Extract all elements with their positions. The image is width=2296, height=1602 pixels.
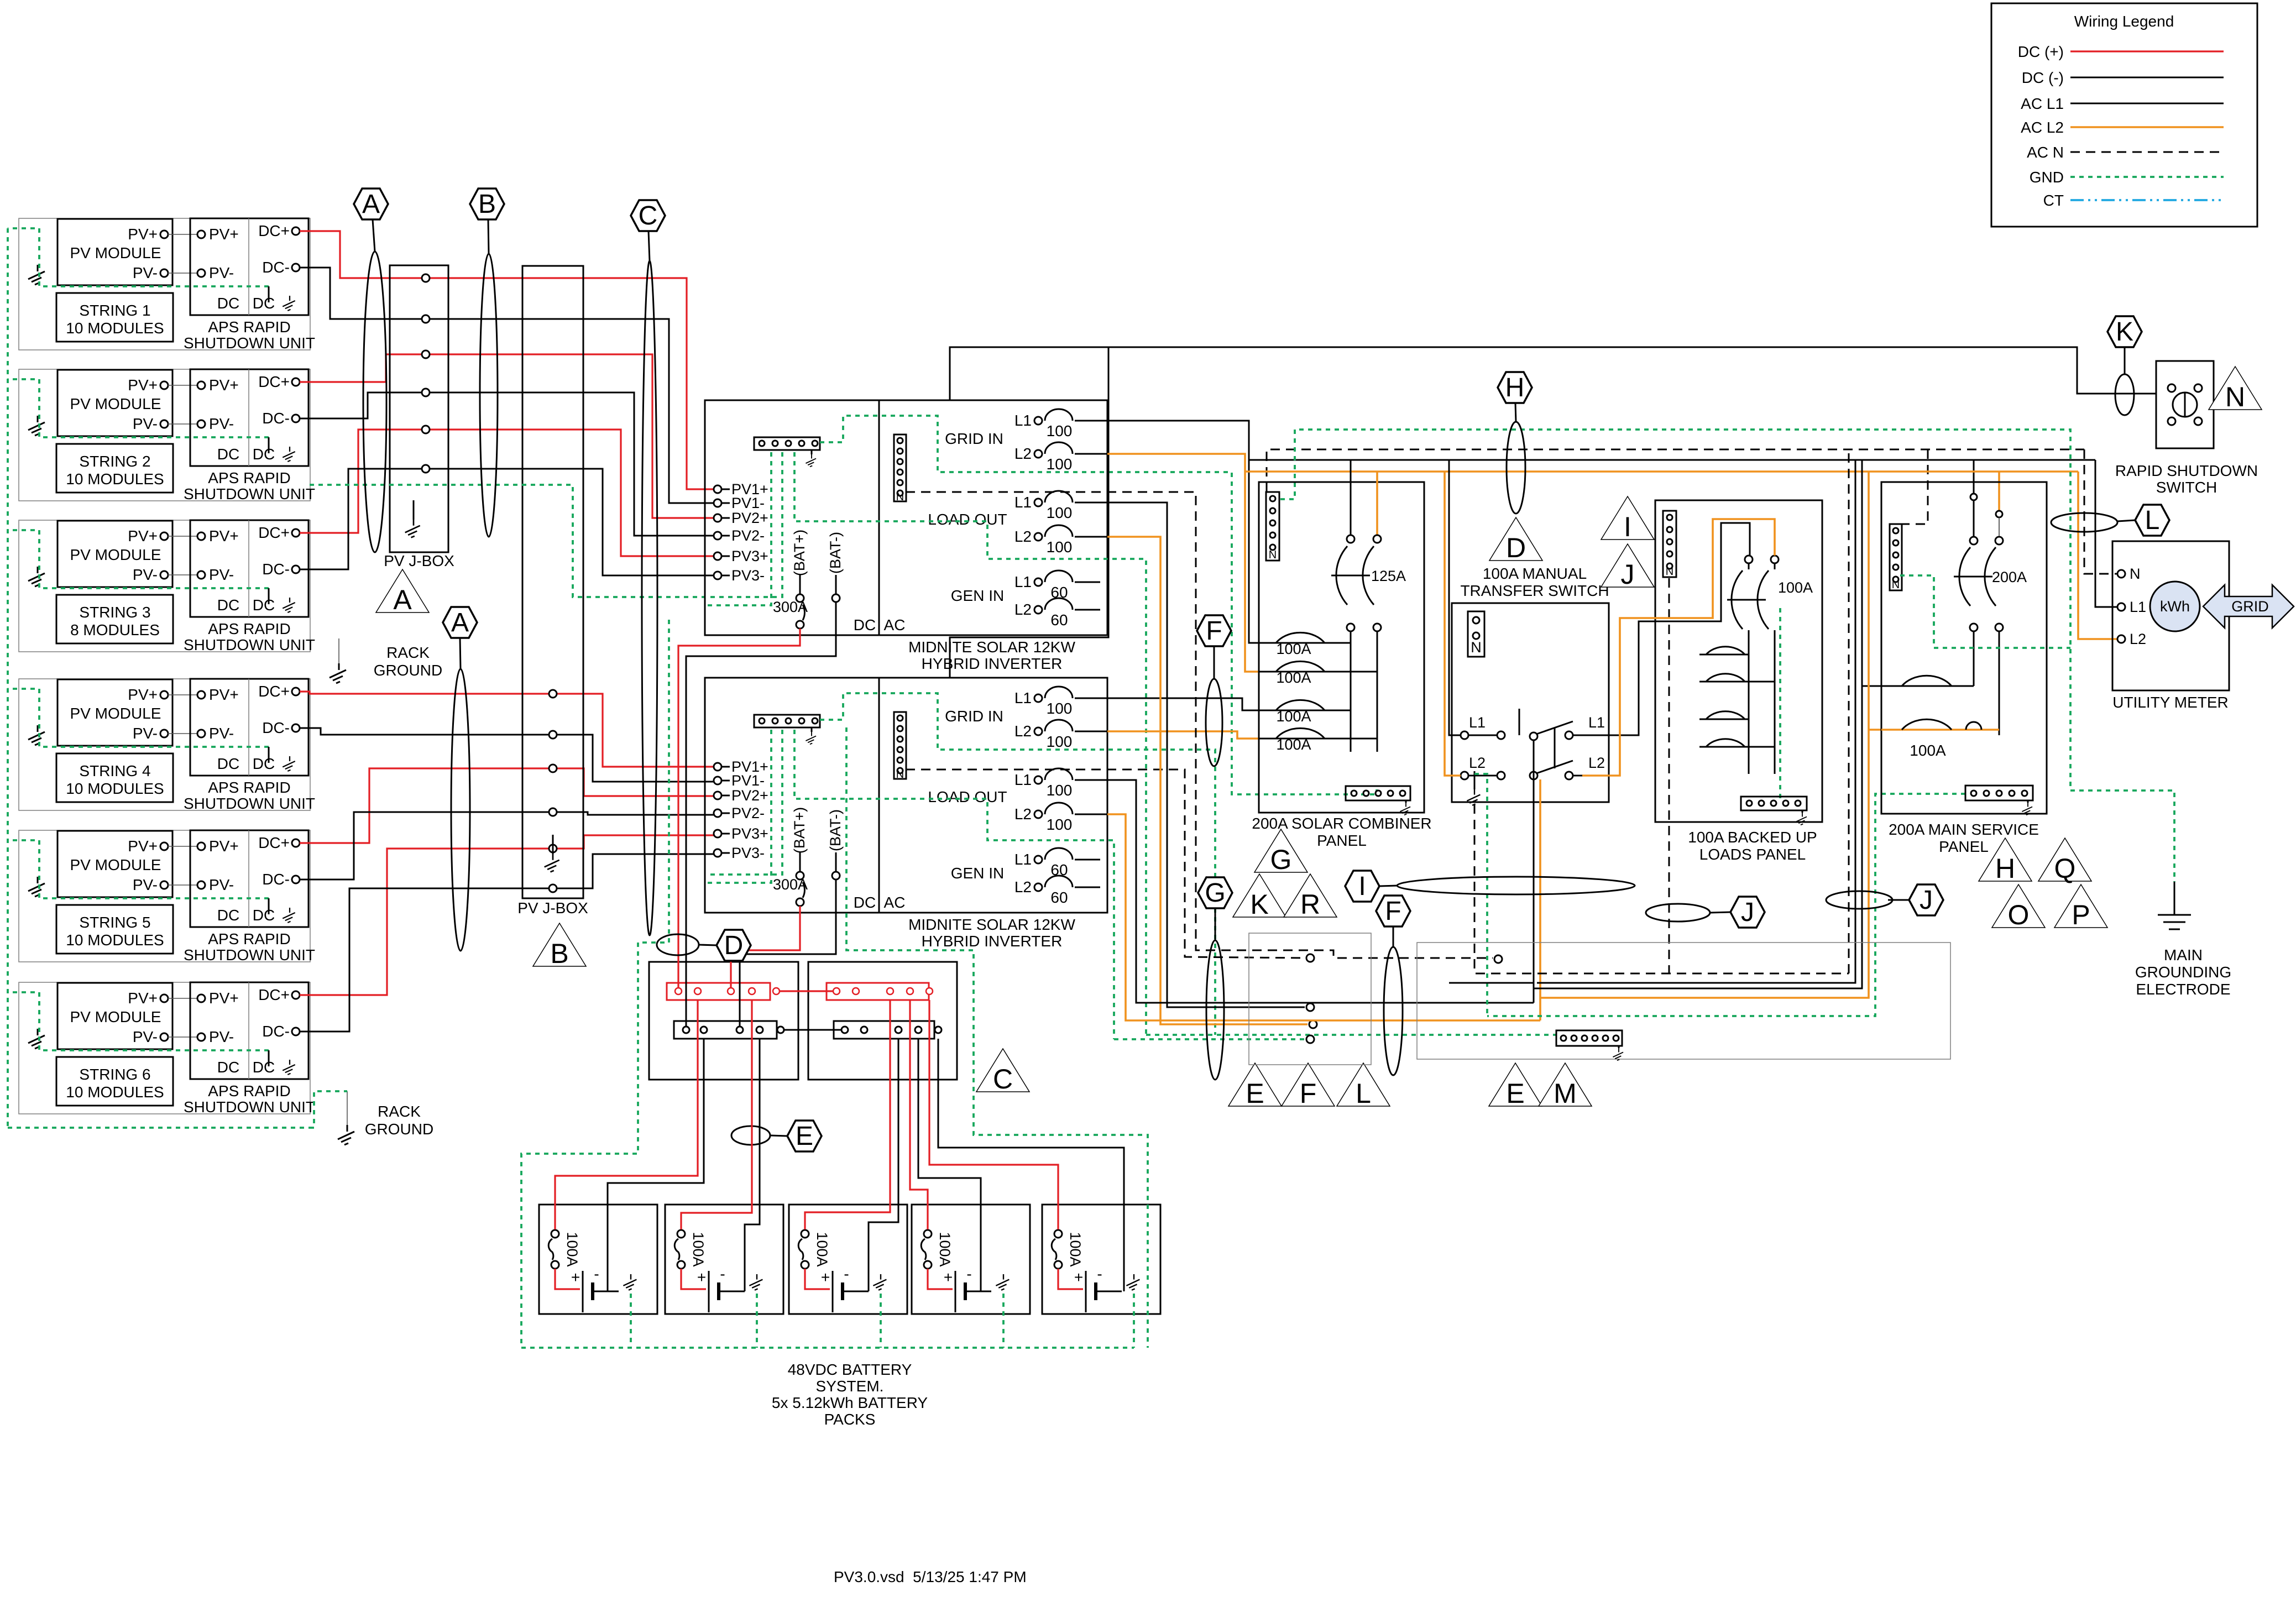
- connector hexagon C (inverter feeds): [631, 200, 665, 231]
- svg-text:APS RAPID: APS RAPID: [208, 469, 290, 486]
- svg-text:SHUTDOWN UNIT: SHUTDOWN UNIT: [184, 636, 315, 653]
- DC+ wire string 2: [300, 354, 422, 382]
- TS green stub: [1474, 774, 1487, 1016]
- svg-text:DC-: DC-: [262, 561, 290, 578]
- svg-text:SHUTDOWN UNIT: SHUTDOWN UNIT: [184, 795, 315, 812]
- TS switched to loads panel L1: [1609, 523, 1750, 735]
- PV string block 4 outer box: [19, 679, 310, 810]
- transfer switch box: [1452, 603, 1609, 802]
- APS rapid shutdown unit 5: [190, 830, 308, 927]
- combiner 125A breaker: [1350, 460, 1352, 539]
- bottom ground busbar: [1556, 1030, 1622, 1046]
- conduit ellipse G conduit: [1206, 940, 1224, 1080]
- battery ground bottom run: [521, 1347, 1134, 1349]
- svg-text:SWITCH: SWITCH: [2156, 479, 2217, 496]
- inverter1 BAT- wire: [686, 635, 836, 1027]
- ground APS DC ground 1: [283, 296, 295, 311]
- svg-text:DC-: DC-: [262, 410, 290, 427]
- loads panel N dashed from N strip: [1669, 578, 1670, 973]
- svg-text:DC: DC: [253, 295, 275, 312]
- DC+ wire string 1: [300, 231, 422, 278]
- inverter1 AC N dashed: [906, 492, 1493, 958]
- svg-text:PV3.0.vsd 5/13/25 1:47 PM: PV3.0.vsd 5/13/25 1:47 PM: [834, 1568, 1027, 1585]
- conduit ellipse C conduit: [642, 261, 657, 935]
- svg-text:P: P: [2072, 899, 2090, 930]
- svg-text:MAIN: MAIN: [2164, 946, 2203, 964]
- green jbox ground run: [310, 485, 705, 597]
- svg-text:SHUTDOWN UNIT: SHUTDOWN UNIT: [184, 946, 315, 964]
- svg-text:PV+: PV+: [209, 376, 239, 394]
- inverter2 BAT- wire: [740, 909, 836, 1027]
- svg-text:STRING 5: STRING 5: [79, 914, 150, 931]
- stub B: [488, 219, 489, 254]
- junction zone box right: [1417, 943, 1950, 1059]
- svg-text:DC+: DC+: [258, 834, 290, 851]
- svg-text:N: N: [2225, 381, 2245, 412]
- connector hexagon K (RSS signal): [2107, 316, 2142, 347]
- svg-text:GND: GND: [2030, 169, 2064, 186]
- ground wire string 6: [8, 992, 269, 1050]
- svg-text:PV J-BOX: PV J-BOX: [517, 899, 588, 917]
- ground module ground 3: [28, 567, 45, 587]
- svg-text:L: L: [1356, 1078, 1371, 1109]
- TS grid feed L2 from bus: [1445, 472, 1461, 776]
- conduit ellipse B conduit: [480, 254, 498, 537]
- svg-text:SHUTDOWN UNIT: SHUTDOWN UNIT: [184, 485, 315, 502]
- svg-text:D: D: [724, 931, 744, 960]
- PV module 5: [57, 831, 172, 897]
- MSP ground feeder green: [1487, 794, 1965, 1016]
- connector hexagon A (strings 1-3): [354, 189, 388, 219]
- junction zone box left (generator stub): [1249, 933, 1371, 1065]
- wiring legend box: [1991, 3, 2257, 227]
- svg-text:L1: L1: [2130, 599, 2146, 615]
- DC+ wire string 5: [300, 768, 549, 843]
- svg-text:O: O: [2008, 899, 2030, 930]
- combiner 100A branch breakers: [1259, 642, 1351, 644]
- svg-text:APS RAPID: APS RAPID: [208, 620, 290, 637]
- inverter1 grid L1 wire to combiner: [1107, 421, 1259, 643]
- svg-text:PV-: PV-: [209, 876, 234, 893]
- wire module to APS 1: [168, 234, 197, 235]
- connector triangle triangle L: [1337, 1063, 1390, 1109]
- connector hexagon A (strings 4-6): [443, 607, 477, 638]
- PV wire S5- jbox2 to inverter2 PV2-: [557, 812, 714, 815]
- stub K: [2124, 347, 2126, 374]
- svg-text:Wiring Legend: Wiring Legend: [2074, 13, 2174, 30]
- svg-text:MIDNITE SOLAR 12KW: MIDNITE SOLAR 12KW: [908, 916, 1075, 933]
- inverter2 battery green: [846, 727, 1148, 1348]
- utility meter box: [2112, 541, 2229, 690]
- svg-text:GROUNDING: GROUNDING: [2135, 964, 2231, 981]
- connector triangle triangle Q: [2038, 838, 2091, 884]
- loads panel branch breakers: [1699, 654, 1749, 656]
- TS common L1 down: [1533, 740, 1535, 1003]
- inverter1 internal ground wires: [707, 452, 771, 605]
- svg-text:AC L1: AC L1: [2021, 95, 2064, 112]
- PV string block 3 outer box: [19, 520, 310, 652]
- ground pack3 gnd: [873, 1274, 886, 1290]
- conduit ellipse F conduit 1: [1206, 679, 1222, 766]
- svg-text:10 MODULES: 10 MODULES: [66, 320, 164, 337]
- conduit ellipse F conduit 2: [1384, 947, 1403, 1075]
- APS rapid shutdown unit 4: [190, 679, 308, 776]
- DC- wire string 3: [300, 469, 422, 569]
- svg-text:L: L: [2145, 506, 2160, 535]
- svg-text:A: A: [362, 190, 380, 219]
- svg-text:I: I: [1358, 872, 1366, 901]
- DC+ wire string 3: [300, 430, 422, 533]
- PV wire S3- jbox to inverter PV3-: [430, 469, 714, 575]
- PV wire S2- jbox to inverter PV2-: [430, 392, 714, 536]
- svg-text:N: N: [1471, 639, 1482, 656]
- ground MSP gnd: [2022, 803, 2032, 815]
- svg-text:STRING 3: STRING 3: [79, 604, 150, 621]
- PV wire S3+ jbox to inverter PV3+: [430, 430, 714, 556]
- DC- bus link: [777, 1027, 784, 1033]
- PV module 4: [57, 679, 172, 746]
- string 1 label box: [56, 293, 173, 342]
- svg-text:125A: 125A: [1371, 568, 1406, 584]
- svg-text:PV MODULE: PV MODULE: [70, 856, 161, 873]
- APS rapid shutdown unit 3: [190, 520, 308, 617]
- 200A solar combiner panel box: [1259, 482, 1424, 813]
- svg-text:K: K: [1250, 889, 1268, 920]
- svg-text:HYBRID INVERTER: HYBRID INVERTER: [922, 655, 1063, 672]
- backed up loads panel box: [1655, 500, 1822, 822]
- connector hexagon E (battery conduit): [787, 1121, 822, 1151]
- ground rack ground symbol 1: [330, 663, 346, 683]
- rack ground 2 green run: [8, 1127, 310, 1129]
- ground pack1 gnd: [623, 1274, 636, 1290]
- connector hexagon G (ground conduit): [1198, 877, 1232, 908]
- svg-text:kWh: kWh: [2160, 598, 2190, 615]
- svg-text:100A: 100A: [1910, 742, 1946, 759]
- ground pack4 gnd: [996, 1274, 1009, 1290]
- connector hexagon J (loads feeder conduit): [1730, 897, 1765, 928]
- svg-text:GROUND: GROUND: [374, 662, 442, 679]
- inverter2 load out L2 wire to transfer switch: [1107, 814, 1540, 1020]
- PV wire S5+ jbox2 to inverter2 PV2+: [557, 768, 714, 796]
- svg-text:100A: 100A: [1276, 669, 1311, 686]
- svg-text:PV MODULE: PV MODULE: [70, 1008, 161, 1025]
- connector triangle triangle I: [1601, 496, 1654, 542]
- svg-text:10 MODULES: 10 MODULES: [66, 1083, 164, 1101]
- svg-text:DC: DC: [253, 596, 275, 614]
- svg-text:PV-: PV-: [133, 415, 158, 432]
- PV wire S6- jbox2 to inverter2 PV3-: [557, 854, 714, 888]
- MSP N strip: [1890, 524, 1902, 590]
- svg-text:PV MODULE: PV MODULE: [70, 395, 161, 412]
- PV module 2: [57, 370, 172, 436]
- ground pack2 gnd: [749, 1274, 762, 1290]
- ground wire string 2: [8, 379, 269, 437]
- inverter1 ground bus exit green: [820, 416, 1377, 794]
- inverter1 load out L2 wire: [1107, 537, 1307, 1024]
- ground wire string 4: [8, 689, 269, 747]
- battery pack 4: [912, 1205, 1030, 1314]
- TS grid feed L1 from bus: [1449, 460, 1461, 735]
- inverter2 load out L1 wire to transfer switch: [1107, 780, 1534, 1003]
- rack ground 2: [347, 1091, 348, 1125]
- I conduit ellipse: [1397, 877, 1635, 894]
- svg-text:RACK: RACK: [386, 644, 430, 661]
- connector triangle triangle O: [1992, 884, 2045, 930]
- AC L1 bus to MSP and meter: [1249, 459, 2095, 461]
- connector hexagon F (inv1 N conduit): [1197, 615, 1231, 646]
- connector triangle triangle R: [1284, 874, 1337, 920]
- ground combiner gnd: [1400, 803, 1410, 815]
- GRID arrow: [2203, 585, 2294, 628]
- battery pack 2 ground wire: [756, 1294, 758, 1348]
- wire module to APS 5: [168, 846, 197, 847]
- ground J-box1 ground: [405, 520, 420, 537]
- TS switch: [1530, 732, 1537, 740]
- battery pack 3 negative return: [869, 1039, 898, 1291]
- svg-text:J: J: [1741, 898, 1754, 927]
- inverter1 load out L1 wire: [1107, 502, 1305, 1007]
- ground APS DC ground 2: [283, 447, 295, 462]
- svg-text:PANEL: PANEL: [1317, 832, 1367, 849]
- svg-text:GRID: GRID: [2231, 598, 2269, 615]
- svg-text:DC: DC: [217, 446, 239, 463]
- PV wire S1- jbox to inverter PV1-: [430, 319, 714, 503]
- kWh dial: [2150, 582, 2200, 631]
- ground daisy-chain left vertical: [7, 228, 9, 1128]
- DC+ bus bar 2: [827, 983, 929, 1000]
- DC- bus bar 1: [674, 1021, 777, 1039]
- ground rack ground symbol 2: [338, 1125, 354, 1145]
- battery pack 3: [789, 1205, 907, 1314]
- battery pack 1 negative return: [608, 1039, 704, 1291]
- inverter1 grid L2 wire to combiner: [1107, 454, 1259, 672]
- svg-text:PV-: PV-: [133, 876, 158, 893]
- connector triangle triangle F: [1282, 1063, 1335, 1109]
- svg-text:J: J: [1920, 886, 1933, 915]
- svg-text:PV+: PV+: [209, 990, 239, 1007]
- battery pack 1: [539, 1205, 657, 1314]
- PV J-BOX 2: [522, 266, 583, 898]
- connector triangle triangle J: [1601, 544, 1654, 590]
- svg-text:SHUTDOWN UNIT: SHUTDOWN UNIT: [184, 1098, 315, 1116]
- MSP 200A main breaker: [1973, 501, 1975, 537]
- svg-text:R: R: [1300, 889, 1320, 920]
- svg-text:PV+: PV+: [209, 686, 239, 703]
- svg-text:ELECTRODE: ELECTRODE: [2136, 981, 2230, 998]
- battery pack 3 positive feed: [805, 1000, 890, 1229]
- inverter1 BAT+ wire: [678, 629, 800, 988]
- svg-text:5x 5.12kWh BATTERY: 5x 5.12kWh BATTERY: [772, 1394, 928, 1411]
- svg-text:L2: L2: [2130, 631, 2146, 647]
- string 3 label box: [56, 595, 173, 643]
- svg-text:N: N: [1269, 549, 1277, 561]
- PV string block 2 outer box: [19, 369, 310, 501]
- conduit ellipse A conduit 2: [451, 669, 470, 951]
- connector triangle triangle H: [1979, 838, 2032, 884]
- DC+ wire string 6: [300, 849, 549, 995]
- connector hexagon H (combiner to MSP): [1498, 372, 1532, 403]
- svg-text:STRING 2: STRING 2: [79, 453, 150, 470]
- loads panel ground drop: [1779, 608, 1781, 799]
- svg-text:PV+: PV+: [128, 226, 158, 243]
- svg-text:10 MODULES: 10 MODULES: [66, 780, 164, 797]
- MSP feeder orange run: [1540, 472, 1869, 998]
- svg-text:PV+: PV+: [209, 837, 239, 855]
- svg-text:PV+: PV+: [209, 226, 239, 243]
- battery pack 5: [1042, 1205, 1160, 1314]
- ground wire string 3: [8, 530, 269, 588]
- PV module 1: [57, 219, 172, 285]
- PV wire S6+ jbox2 to inverter2 PV3+: [557, 835, 714, 849]
- svg-text:PV MODULE: PV MODULE: [70, 244, 161, 261]
- svg-text:SYSTEM.: SYSTEM.: [816, 1378, 884, 1395]
- connector hexagon J (MSP feeder conduit): [1909, 884, 1943, 915]
- ground wire string 5: [8, 840, 269, 898]
- DC- wire string 6: [300, 888, 549, 1032]
- svg-text:STRING 6: STRING 6: [79, 1066, 150, 1083]
- svg-text:A: A: [393, 584, 412, 615]
- MSP 100A breaker rows: [1881, 685, 1974, 687]
- svg-text:PANEL: PANEL: [1939, 838, 1989, 855]
- svg-text:PV MODULE: PV MODULE: [70, 705, 161, 722]
- ground APS DC ground 4: [283, 756, 295, 771]
- battery pack 1 positive feed: [555, 1000, 698, 1229]
- main service panel box: [1881, 482, 2047, 814]
- svg-text:DC: DC: [217, 755, 239, 772]
- APS rapid shutdown unit 2: [190, 369, 308, 466]
- DC- wire string 1: [300, 268, 422, 319]
- svg-text:PV-: PV-: [133, 725, 158, 742]
- conduit ellipse A conduit: [363, 252, 386, 552]
- svg-text:PV-: PV-: [133, 264, 158, 281]
- connector triangle triangle B (jbox2): [533, 923, 586, 969]
- svg-text:UTILITY METER: UTILITY METER: [2112, 694, 2229, 711]
- battery pack 2 negative return: [745, 1039, 760, 1291]
- svg-text:DC: DC: [253, 755, 275, 772]
- svg-text:48VDC BATTERY: 48VDC BATTERY: [788, 1361, 912, 1378]
- connector hexagon I (TS conduit): [1345, 871, 1379, 902]
- stub A2: [460, 638, 461, 669]
- conduit ellipse K conduit: [2115, 374, 2134, 415]
- svg-text:N: N: [2130, 566, 2141, 582]
- rapid shutdown switch box: [2156, 361, 2214, 448]
- rapid shutdown signal wire from inverter1: [950, 347, 2156, 400]
- svg-text:PV MODULE: PV MODULE: [70, 546, 161, 563]
- svg-text:RAPID SHUTDOWN: RAPID SHUTDOWN: [2115, 462, 2258, 479]
- svg-text:200A SOLAR COMBINER: 200A SOLAR COMBINER: [1252, 815, 1431, 832]
- svg-text:100A: 100A: [1778, 579, 1813, 596]
- main grounding electrode: [2174, 882, 2175, 915]
- svg-text:STRING 4: STRING 4: [79, 762, 150, 779]
- battery pack 2 positive feed: [681, 1000, 752, 1229]
- svg-text:PV-: PV-: [209, 415, 234, 432]
- battery pack 4 negative return: [918, 1039, 981, 1291]
- DC+ bus link: [773, 988, 780, 994]
- svg-text:DC+: DC+: [258, 524, 290, 541]
- string 6 label box: [56, 1057, 173, 1106]
- connector triangle triangle N (RSS): [2209, 367, 2262, 412]
- svg-text:PV-: PV-: [133, 1028, 158, 1045]
- loads panel N strip: [1663, 511, 1676, 577]
- ground module ground 2: [28, 416, 45, 436]
- battery pack 3 ground wire: [880, 1294, 882, 1348]
- ground wire string 1: [8, 228, 269, 286]
- svg-text:PV-: PV-: [209, 725, 234, 742]
- loads panel ground busbar: [1741, 797, 1807, 810]
- svg-text:DC+: DC+: [258, 222, 290, 239]
- connector hexagon D (battery conduit): [716, 930, 751, 961]
- PV module 3: [57, 521, 172, 587]
- APS rapid shutdown unit 6: [190, 982, 308, 1079]
- battery pack 4 ground wire: [1002, 1294, 1005, 1348]
- svg-text:100A BACKED UP: 100A BACKED UP: [1688, 829, 1817, 846]
- CT gray stub: [1999, 517, 2000, 535]
- svg-text:E: E: [1246, 1078, 1264, 1109]
- svg-text:H: H: [1505, 373, 1525, 402]
- battery pack 4 positive feed: [910, 1000, 928, 1229]
- wire module to APS 4: [168, 694, 197, 695]
- svg-text:LOADS PANEL: LOADS PANEL: [1699, 846, 1806, 863]
- battery combiner box 1: [649, 962, 798, 1080]
- MSP N feeder dashed: [1848, 449, 1850, 973]
- TS N strip: [1468, 611, 1484, 657]
- wire module to APS 3: [168, 536, 197, 537]
- svg-text:PACKS: PACKS: [824, 1411, 876, 1428]
- wire module to APS 6: [168, 998, 197, 999]
- MSP feeder black run: [1534, 460, 1862, 988]
- wire module to APS 2: [168, 385, 197, 386]
- AC L2 bus to MSP and meter: [1245, 470, 2078, 473]
- svg-text:PV+: PV+: [128, 990, 158, 1007]
- svg-text:CT: CT: [2043, 192, 2064, 209]
- inverter2 AC N dashed: [906, 769, 1305, 958]
- svg-text:PV-: PV-: [209, 264, 234, 281]
- svg-text:M: M: [1554, 1078, 1577, 1109]
- svg-text:J: J: [1621, 559, 1635, 590]
- svg-text:DC-: DC-: [262, 871, 290, 888]
- svg-text:PV+: PV+: [128, 527, 158, 545]
- svg-text:DC: DC: [253, 446, 275, 463]
- svg-text:N: N: [1892, 579, 1900, 591]
- svg-text:200A: 200A: [1992, 569, 2027, 585]
- string 5 label box: [56, 905, 173, 954]
- ground module ground 5: [28, 877, 45, 897]
- svg-text:MIDNITE SOLAR 12KW: MIDNITE SOLAR 12KW: [908, 638, 1075, 656]
- connector triangle triangle P: [2054, 884, 2107, 930]
- svg-text:DC (+): DC (+): [2018, 43, 2064, 60]
- connector triangle triangle E2: [1489, 1063, 1542, 1109]
- svg-text:APS RAPID: APS RAPID: [208, 930, 290, 947]
- ground loads panel gnd: [1796, 813, 1807, 825]
- svg-text:10 MODULES: 10 MODULES: [66, 931, 164, 949]
- battery pack 2: [665, 1205, 783, 1314]
- svg-text:DC: DC: [253, 907, 275, 924]
- string 2 label box: [56, 444, 173, 493]
- ground APS DC ground 6: [283, 1060, 295, 1075]
- ground module ground 4: [28, 725, 45, 745]
- svg-text:DC: DC: [217, 1059, 239, 1076]
- PV wire S4- jbox2 to inverter2 PV1-: [557, 735, 714, 782]
- svg-text:F: F: [1385, 897, 1401, 926]
- svg-text:N: N: [1666, 566, 1673, 578]
- svg-text:RACK: RACK: [378, 1103, 421, 1120]
- svg-text:F: F: [1300, 1078, 1317, 1109]
- string 4 label box: [56, 753, 173, 802]
- MSP ground busbar: [1965, 786, 2033, 800]
- inverter2 grid L2 wire to combiner: [1107, 731, 1259, 739]
- ground APS DC ground 5: [283, 908, 295, 923]
- ground J-box2 ground: [545, 854, 559, 872]
